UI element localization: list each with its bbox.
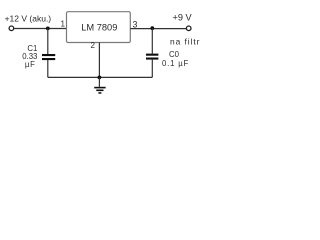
svg-text:LM 7809: LM 7809 xyxy=(81,22,117,32)
node output junction xyxy=(150,26,154,30)
wire ground rail xyxy=(48,76,153,78)
label C0 0.1 µF xyxy=(162,50,189,68)
wire pin 2 to ground rail xyxy=(98,43,100,78)
wire pin 3 to output xyxy=(130,28,186,30)
capacitor C1 xyxy=(42,54,55,60)
svg-text:µF: µF xyxy=(25,60,36,69)
wire junction to ground symbol xyxy=(98,77,100,86)
label C1 0.33 µF xyxy=(22,44,37,69)
svg-text:+9 V: +9 V xyxy=(173,12,193,22)
svg-text:na filtr: na filtr xyxy=(170,37,200,47)
wire C1 bottom to ground rail xyxy=(47,60,49,77)
node input junction xyxy=(46,27,50,31)
output terminal xyxy=(186,26,191,31)
svg-text:0.1 µF: 0.1 µF xyxy=(162,59,189,68)
wire C0 bottom to ground rail xyxy=(151,60,153,78)
svg-text:1: 1 xyxy=(61,20,66,29)
op-amp U1 LM 7809 regulator box xyxy=(67,12,131,43)
svg-text:+12 V (aku.): +12 V (aku.) xyxy=(5,13,52,23)
wire input to pin 1 xyxy=(14,28,67,30)
wire junction to C1 top xyxy=(47,28,49,54)
wire junction to C0 top xyxy=(151,28,153,53)
node ground junction xyxy=(98,76,102,80)
svg-text:2: 2 xyxy=(91,41,96,50)
ground xyxy=(94,87,105,94)
input terminal xyxy=(9,26,14,31)
capacitor C0 xyxy=(146,54,158,60)
